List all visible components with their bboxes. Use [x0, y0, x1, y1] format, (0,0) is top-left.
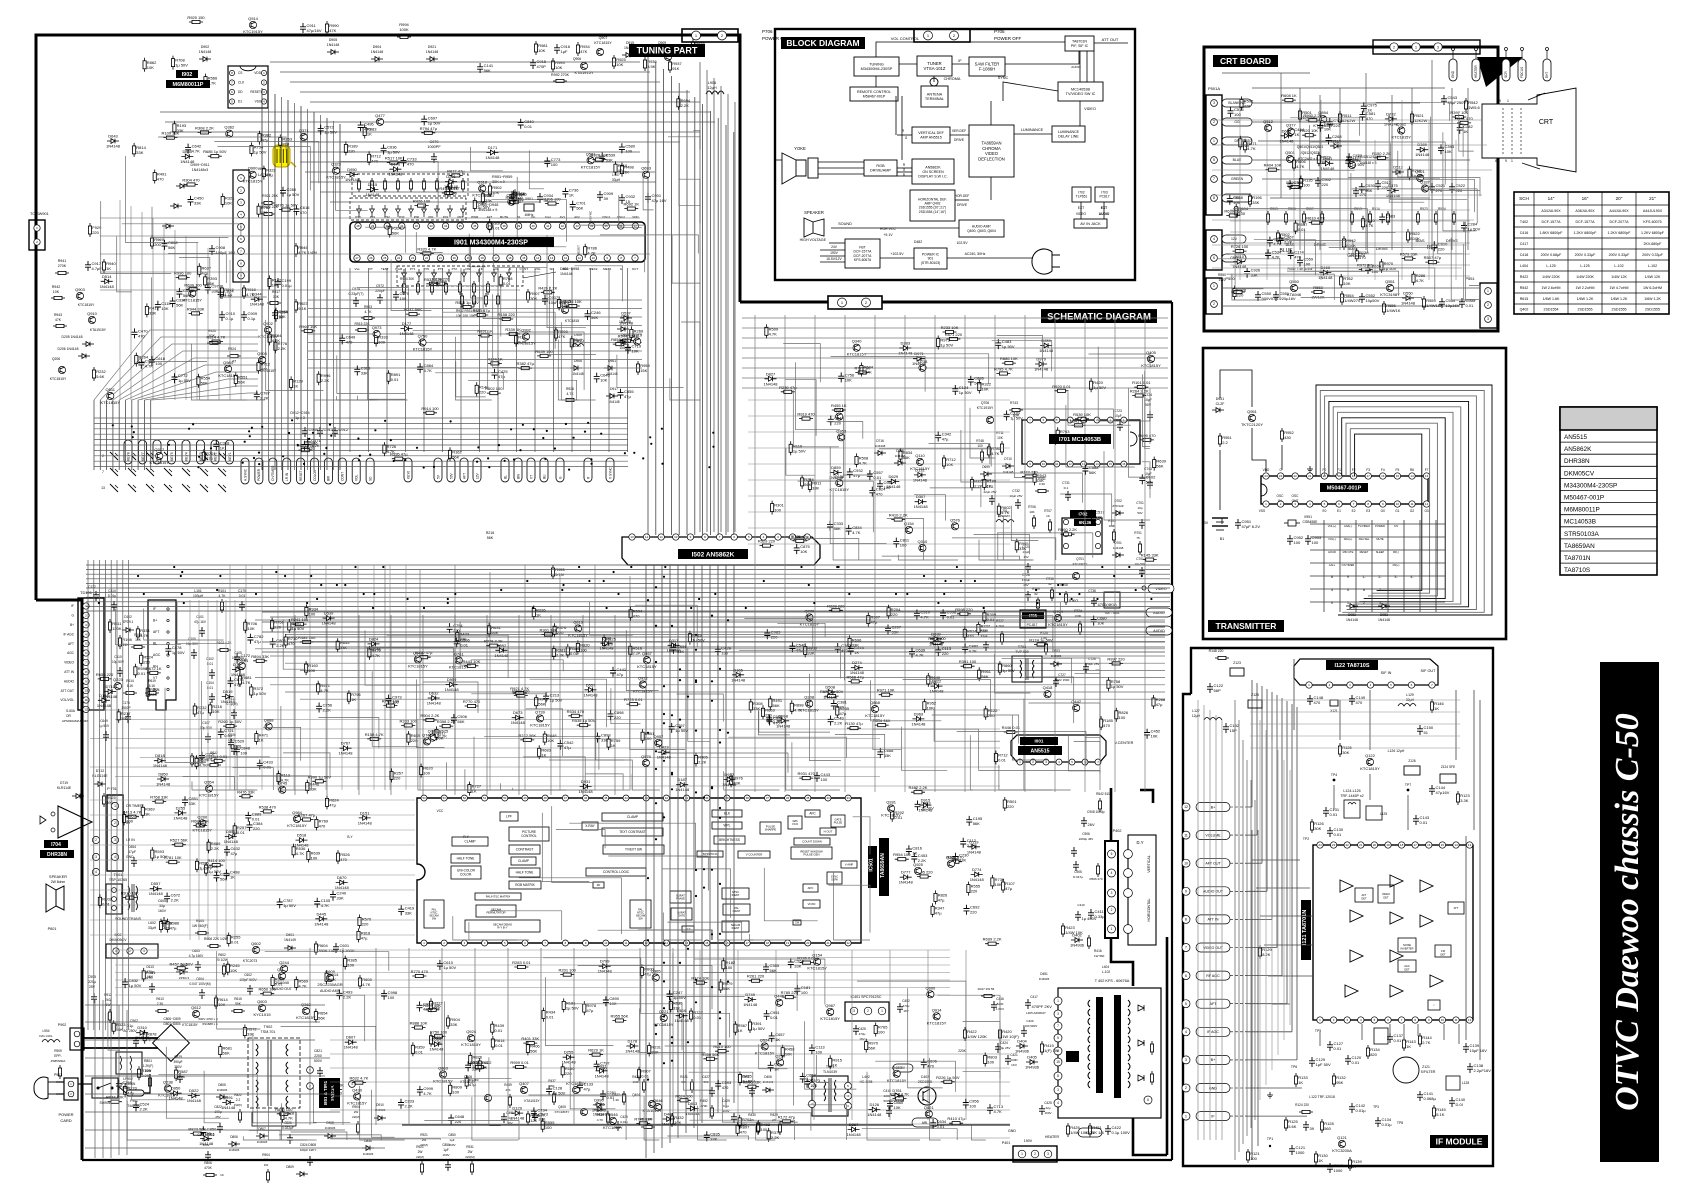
- resistor: [636, 1122, 650, 1124]
- svg-text:Q501/Q511/Q521: Q501/Q511/Q521: [1297, 145, 1324, 149]
- svg-text:C420: C420: [1026, 1019, 1034, 1023]
- resistor: [315, 1009, 317, 1023]
- wire: [545, 977, 613, 1045]
- wire: [262, 995, 365, 1041]
- wire: [694, 959, 825, 1005]
- svg-text:470: 470: [261, 210, 268, 215]
- svg-text:H.SYNC: H.SYNC: [243, 468, 247, 481]
- left vertical bus below TD101: [87, 560, 89, 1030]
- resistor: [1239, 136, 1241, 150]
- capacitor: [218, 728, 224, 738]
- svg-text:8: 8: [1057, 1074, 1059, 1078]
- wire: [1014, 411, 1045, 477]
- resistor: [352, 1082, 366, 1084]
- resistor: [469, 1052, 471, 1066]
- svg-text:Q511: Q511: [106, 387, 116, 392]
- wire: [1289, 241, 1353, 257]
- svg-text:D932: D932: [724, 772, 734, 777]
- svg-text:C701: C701: [1136, 501, 1144, 505]
- svg-text:R692 1K: R692 1K: [624, 202, 640, 207]
- svg-text:2SD1555: 2SD1555: [1612, 307, 1627, 311]
- resistor: [260, 993, 274, 995]
- flyback right resistors: [1151, 1041, 1153, 1055]
- svg-text:100: 100: [392, 700, 399, 705]
- svg-text:11: 11: [1184, 833, 1188, 837]
- svg-text:0.01: 0.01: [546, 1015, 555, 1020]
- svg-text:B10K: B10K: [1410, 236, 1420, 241]
- wire: [456, 362, 486, 397]
- resistor: [988, 444, 990, 458]
- svg-text:4.7K: 4.7K: [140, 633, 149, 638]
- wire: [1068, 392, 1131, 425]
- svg-text:R283 0.01: R283 0.01: [512, 960, 531, 965]
- transistor: [777, 1059, 784, 1066]
- wire: [1290, 118, 1360, 136]
- svg-text:1N4148: 1N4148: [173, 815, 188, 820]
- capacitor: [671, 644, 677, 654]
- resistor: [648, 1043, 650, 1057]
- svg-text:220: 220: [1438, 246, 1445, 251]
- section label IF MODULE: [1430, 1135, 1488, 1148]
- svg-text:C102: C102: [206, 657, 214, 661]
- svg-text:R992 270K: R992 270K: [551, 73, 570, 77]
- svg-text:R706: R706: [1028, 505, 1036, 509]
- svg-text:33K: 33K: [1019, 546, 1026, 551]
- svg-text:TLP651: TLP651: [1076, 195, 1088, 199]
- keypad matrix grid: [1323, 520, 1325, 612]
- svg-text:1K: 1K: [775, 1037, 780, 1042]
- wire: [357, 288, 409, 312]
- transistor: [156, 452, 163, 459]
- svg-text:190V: 190V: [830, 251, 839, 255]
- svg-text:ATT OUT: ATT OUT: [1102, 37, 1119, 42]
- resistor: [152, 801, 166, 803]
- svg-text:47µ: 47µ: [234, 682, 241, 687]
- I121 internal amplifier triangles: [1340, 880, 1353, 892]
- svg-text:1N4148: 1N4148: [371, 50, 384, 54]
- svg-text:R877 47µ: R877 47µ: [447, 168, 465, 173]
- capacitor: [667, 990, 673, 1000]
- diode: [104, 689, 116, 694]
- diode: [296, 838, 308, 843]
- svg-text:1µ 50V: 1µ 50V: [254, 149, 267, 154]
- svg-text:3: 3: [1379, 601, 1381, 605]
- resistor: [205, 74, 207, 88]
- svg-text:100: 100: [987, 1060, 994, 1065]
- wire: [372, 671, 418, 746]
- svg-text:I.R IN: I.R IN: [126, 838, 135, 842]
- svg-text:D274: D274: [852, 660, 862, 665]
- svg-text:15: 15: [705, 941, 709, 945]
- capacitor: [814, 772, 820, 782]
- IC501 block RESET WINDOW: [791, 847, 832, 859]
- svg-text:L-102: L-102: [1614, 264, 1623, 268]
- IC501 block 32fh VCO: [788, 816, 802, 829]
- wire: [460, 622, 471, 666]
- svg-text:KTA1915Y: KTA1915Y: [90, 328, 107, 332]
- wire: [903, 680, 991, 717]
- transistor: [827, 1008, 834, 1015]
- svg-text:Q121: Q121: [1337, 1135, 1348, 1140]
- svg-text:1N4148: 1N4148: [153, 763, 168, 768]
- svg-text:6: 6: [1185, 974, 1187, 978]
- transistor: [1287, 128, 1294, 135]
- svg-text:D451: D451: [1040, 972, 1048, 976]
- transistor Q512: [1264, 124, 1271, 131]
- transistor: [643, 171, 650, 178]
- svg-text:56K: 56K: [591, 315, 598, 320]
- svg-text:KEY5: KEY5: [170, 452, 174, 461]
- svg-text:R333 100: R333 100: [400, 718, 418, 723]
- svg-text:4: 4: [1331, 588, 1333, 592]
- svg-text:0.01: 0.01: [237, 830, 246, 835]
- svg-text:1µ 50V: 1µ 50V: [172, 650, 185, 655]
- resistor: [196, 755, 198, 769]
- svg-text:KTC1815Y: KTC1815Y: [78, 303, 95, 307]
- wire: [336, 396, 407, 400]
- diode D513: [1392, 170, 1404, 175]
- svg-text:1N4936: 1N4936: [363, 1152, 374, 1156]
- svg-text:R924: R924: [228, 347, 236, 351]
- wire: [638, 930, 712, 940]
- svg-text:R914 100: R914 100: [421, 406, 439, 411]
- svg-text:2.2K: 2.2K: [773, 719, 782, 724]
- capacitor: [448, 1114, 454, 1124]
- svg-text:4.7K: 4.7K: [916, 653, 925, 658]
- svg-text:2: 2: [1393, 45, 1395, 49]
- svg-text:100: 100: [308, 668, 315, 673]
- svg-text:D902: D902: [201, 45, 210, 49]
- svg-text:47: 47: [564, 796, 568, 800]
- svg-text:23: 23: [1279, 474, 1283, 478]
- svg-text:Q362: Q362: [224, 125, 235, 130]
- block VERTICAL DEF AMP: [912, 127, 950, 143]
- svg-text:2: 2: [114, 821, 116, 825]
- wire: [1043, 658, 1100, 674]
- svg-text:8: 8: [1331, 575, 1333, 579]
- wire: [191, 344, 247, 400]
- if module wires horizontal: [1248, 806, 1252, 808]
- svg-text:E3: E3: [1366, 509, 1370, 513]
- svg-text:C425: C425: [858, 1027, 866, 1031]
- wire: [561, 322, 595, 400]
- block FBT: [845, 239, 880, 268]
- resistor: [118, 709, 120, 723]
- svg-text:Q900: Q900: [248, 166, 259, 171]
- capacitor: [358, 121, 364, 131]
- resistor: [277, 1113, 291, 1115]
- resistor: [983, 476, 985, 490]
- central horizontals third band: [90, 709, 1000, 711]
- I701 pins: [1027, 417, 1033, 423]
- svg-text:4.7K: 4.7K: [1365, 223, 1374, 228]
- svg-text:47µ: 47µ: [938, 897, 945, 902]
- svg-text:1N4148: 1N4148: [327, 43, 340, 47]
- svg-text:4.7K: 4.7K: [285, 1116, 294, 1121]
- capacitor: [1361, 102, 1367, 112]
- svg-text:100: 100: [645, 736, 652, 741]
- svg-text:4.7K: 4.7K: [321, 903, 330, 908]
- svg-text:1µ 50V: 1µ 50V: [959, 390, 972, 395]
- wire: [857, 981, 966, 1034]
- wire: [786, 448, 815, 475]
- svg-text:HEATER: HEATER: [1474, 65, 1478, 78]
- diode: [777, 718, 789, 723]
- wire: [704, 973, 798, 1011]
- wire: [243, 1136, 316, 1140]
- svg-text:OUT: OUT: [632, 267, 639, 271]
- resistor: [293, 623, 307, 625]
- tuning key matrix diagonal switches: [110, 452, 118, 460]
- svg-text:1N4148: 1N4148: [572, 372, 583, 376]
- resistor: [995, 751, 997, 765]
- resistor R125 30K: [1339, 743, 1341, 757]
- svg-text:AV IN JACK: AV IN JACK: [1080, 222, 1101, 226]
- transistor: [927, 991, 934, 998]
- capacitor C907 10uF 50V: [542, 295, 548, 305]
- transistor Q402 2SD1555 big: [918, 1087, 936, 1105]
- svg-text:R770 470: R770 470: [411, 969, 429, 974]
- resistor: [750, 699, 752, 713]
- svg-text:CLK: CLK: [238, 81, 245, 85]
- wire: [796, 647, 841, 678]
- transistor: [643, 657, 650, 664]
- svg-text:1N4936: 1N4936: [1025, 1065, 1040, 1070]
- svg-text:56K: 56K: [329, 977, 336, 982]
- resistor: [1108, 677, 1110, 691]
- resistor: [278, 771, 280, 785]
- svg-text:20: 20: [1373, 843, 1377, 847]
- resistor: [315, 816, 317, 830]
- svg-text:P71: P71: [410, 267, 416, 271]
- svg-text:220: 220: [205, 757, 212, 762]
- resistor: [1034, 471, 1036, 485]
- if module mesh extra: [1259, 720, 1261, 1100]
- resistor: [720, 979, 722, 993]
- svg-text:10K: 10K: [995, 882, 1002, 887]
- svg-text:R794 47µ: R794 47µ: [420, 126, 438, 131]
- capacitor: [952, 385, 958, 395]
- central horizontals second band: [255, 619, 1165, 621]
- svg-text:1N4936: 1N4936: [1039, 977, 1050, 981]
- svg-text:R523: R523: [1420, 207, 1428, 211]
- wire: [424, 1121, 519, 1141]
- svg-text:470: 470: [967, 633, 974, 638]
- diode: [1321, 161, 1333, 166]
- svg-text:R542 510: R542 510: [1096, 792, 1110, 796]
- resistor: [977, 621, 979, 635]
- wire: [916, 787, 973, 790]
- diode: [232, 667, 244, 672]
- transistor: [652, 974, 659, 981]
- transistor: [522, 333, 529, 340]
- svg-text:22µ: 22µ: [1045, 1106, 1050, 1110]
- svg-text:KTC1815Y: KTC1815Y: [101, 400, 121, 405]
- resistor: [1362, 216, 1364, 230]
- wire: [1060, 494, 1112, 526]
- capacitor C916 1uF: [554, 44, 560, 54]
- svg-text:LPF: LPF: [506, 815, 512, 819]
- svg-text:C410: C410: [1077, 903, 1085, 907]
- svg-text:D632: D632: [429, 691, 439, 696]
- resistor: [1413, 271, 1415, 285]
- svg-text:P00: P00: [414, 215, 420, 219]
- svg-text:7: 7: [1057, 1024, 1059, 1028]
- wire: [108, 1013, 120, 1050]
- capacitor: [788, 958, 794, 968]
- svg-text:40: 40: [532, 224, 536, 228]
- resistor: [465, 705, 479, 707]
- capacitor: [887, 1100, 893, 1110]
- svg-text:1K: 1K: [278, 315, 283, 320]
- IC501 block X-RAY: [582, 822, 598, 830]
- svg-text:1N4148: 1N4148: [338, 751, 353, 756]
- svg-text:1µ 50V: 1µ 50V: [550, 697, 563, 702]
- resistor: [829, 1055, 831, 1069]
- svg-text:C104: C104: [206, 681, 214, 685]
- band horizontals 800-950 left of IC501: [90, 799, 415, 801]
- svg-text:D178: D178: [628, 1039, 638, 1044]
- svg-text:12K2W: 12K2W: [1342, 118, 1355, 123]
- svg-text:D732: D732: [1386, 111, 1396, 116]
- svg-text:OSC: OSC: [1277, 494, 1285, 498]
- capacitor: [828, 716, 834, 726]
- connector P902: [70, 1028, 84, 1050]
- resistor: [193, 824, 207, 826]
- resistor R907 30K: [527, 289, 529, 303]
- svg-text:R701: R701: [1134, 531, 1142, 535]
- svg-text:13: 13: [1425, 474, 1429, 478]
- svg-text:C417: C417: [1520, 242, 1529, 246]
- block AN5862K ON SCREEN DISPLAY: [912, 159, 954, 184]
- svg-text:100K: 100K: [399, 27, 409, 32]
- svg-text:100: 100: [347, 963, 354, 968]
- svg-text:1N4148: 1N4148: [358, 820, 373, 825]
- diode: [620, 316, 632, 321]
- svg-text:470: 470: [633, 614, 640, 619]
- svg-text:R886 10K: R886 10K: [1000, 356, 1018, 361]
- svg-text:4.7K: 4.7K: [859, 460, 868, 465]
- diode: [912, 717, 924, 722]
- tuning part horizontal bus rows: [94, 417, 628, 419]
- svg-text:1µF: 1µF: [561, 49, 569, 54]
- svg-text:1N4148: 1N4148: [1232, 264, 1247, 269]
- resistor: [1380, 259, 1382, 273]
- capacitor C511 270: [1353, 187, 1359, 197]
- resistor: [935, 890, 937, 904]
- diode D550 1N4148: [1402, 296, 1414, 301]
- svg-text:KTC1815Y: KTC1815Y: [183, 298, 203, 303]
- svg-text:TP3: TP3: [1373, 1105, 1379, 1109]
- IC I901 tag: [428, 237, 554, 247]
- capacitor: [789, 642, 795, 652]
- svg-text:R672 1K: R672 1K: [146, 666, 162, 671]
- svg-text:R150 2.2K: R150 2.2K: [1372, 151, 1391, 156]
- wire: [279, 1135, 381, 1140]
- capacitor: [763, 963, 769, 973]
- svg-text:10K: 10K: [946, 462, 953, 467]
- svg-text:R527 56K: R527 56K: [170, 838, 188, 843]
- transistor: [226, 130, 233, 137]
- svg-text:1N4148: 1N4148: [221, 699, 236, 704]
- svg-text:CL2F: CL2F: [1216, 402, 1226, 406]
- svg-text:AFT: AFT: [487, 215, 493, 219]
- svg-text:KTC1815Y: KTC1815Y: [881, 813, 901, 818]
- svg-text:CH/TIMER: CH/TIMER: [271, 465, 275, 481]
- wire: [809, 674, 841, 761]
- svg-text:R504 2.2K: R504 2.2K: [420, 713, 439, 718]
- svg-text:RESET: RESET: [250, 90, 261, 94]
- svg-text:470: 470: [1356, 700, 1363, 705]
- svg-text:220: 220: [614, 715, 621, 720]
- transistor Q550 KTA946: [1290, 284, 1297, 291]
- svg-text:SLEEP: SLEEP: [1376, 550, 1385, 554]
- diode: [930, 636, 942, 641]
- central mid verticals: [754, 315, 756, 792]
- resistor: [166, 861, 180, 863]
- svg-text:33K: 33K: [337, 896, 344, 901]
- svg-text:0.01: 0.01: [1394, 1038, 1403, 1043]
- svg-text:MEX1: MEX1: [603, 267, 612, 271]
- svg-text:17: 17: [1367, 474, 1371, 478]
- svg-text:100: 100: [1312, 540, 1319, 545]
- svg-text:M50467-001P: M50467-001P: [1327, 486, 1362, 492]
- svg-text:1K: 1K: [293, 383, 298, 388]
- svg-text:0.01: 0.01: [1466, 303, 1475, 308]
- svg-text:1µ 160V: 1µ 160V: [340, 948, 355, 953]
- wire: [783, 344, 820, 383]
- svg-text:470: 470: [340, 857, 347, 862]
- svg-text:Q984: Q984: [292, 810, 303, 815]
- capacitor: [1082, 465, 1088, 475]
- svg-text:RESET: RESET: [299, 470, 303, 481]
- block SAW FILTER: [969, 57, 1005, 76]
- tuning part nested bus top-left: [261, 88, 263, 470]
- capacitor: [1327, 118, 1333, 128]
- resistor: [279, 209, 293, 211]
- diode: [626, 1044, 638, 1049]
- svg-text:T402: T402: [1520, 220, 1528, 224]
- svg-text:KTC1815Y: KTC1815Y: [150, 460, 170, 465]
- thick power wiring: [84, 1037, 158, 1039]
- wire: [759, 711, 830, 732]
- svg-text:IF AGC: IF AGC: [1207, 1030, 1219, 1034]
- diode: [1040, 343, 1052, 348]
- diode: [368, 642, 380, 647]
- svg-text:R572 100: R572 100: [928, 636, 946, 641]
- svg-text:E2: E2: [1352, 509, 1356, 513]
- resistor: [189, 312, 203, 314]
- svg-text:41: 41: [546, 224, 550, 228]
- svg-text:F4: F4: [1381, 468, 1385, 472]
- wire: [951, 616, 1053, 652]
- resistor: [147, 672, 161, 674]
- wire: [283, 753, 330, 777]
- resistor: [423, 719, 437, 721]
- svg-text:R264 2.2K: R264 2.2K: [1130, 389, 1149, 394]
- resistor: [782, 996, 796, 998]
- wire: [1311, 268, 1435, 300]
- svg-text:1N4149: 1N4149: [284, 938, 296, 942]
- diode: [157, 777, 169, 782]
- svg-text:D205 1N4148: D205 1N4148: [62, 335, 83, 339]
- crt neck black triangle: [1477, 57, 1523, 87]
- svg-text:D522: D522: [189, 1088, 199, 1093]
- resistor: [301, 330, 315, 332]
- svg-text:390µF: 390µF: [173, 1060, 182, 1064]
- capacitor: [835, 643, 841, 653]
- svg-text:56K: 56K: [457, 719, 464, 724]
